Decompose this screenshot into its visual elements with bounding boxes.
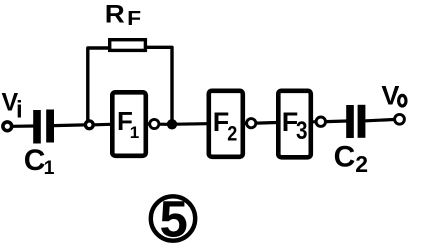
- svg-text:C: C: [24, 144, 46, 177]
- svg-text:R: R: [105, 1, 125, 29]
- svg-text:F: F: [127, 8, 141, 30]
- svg-text:C: C: [334, 140, 356, 173]
- svg-text:3: 3: [296, 117, 308, 145]
- svg-text:i: i: [16, 96, 23, 123]
- svg-text:5: 5: [160, 191, 188, 248]
- svg-text:1: 1: [44, 157, 55, 179]
- svg-text:2: 2: [227, 122, 237, 145]
- svg-text:1: 1: [130, 123, 139, 142]
- svg-text:V: V: [381, 81, 399, 111]
- svg-text:2: 2: [355, 151, 368, 177]
